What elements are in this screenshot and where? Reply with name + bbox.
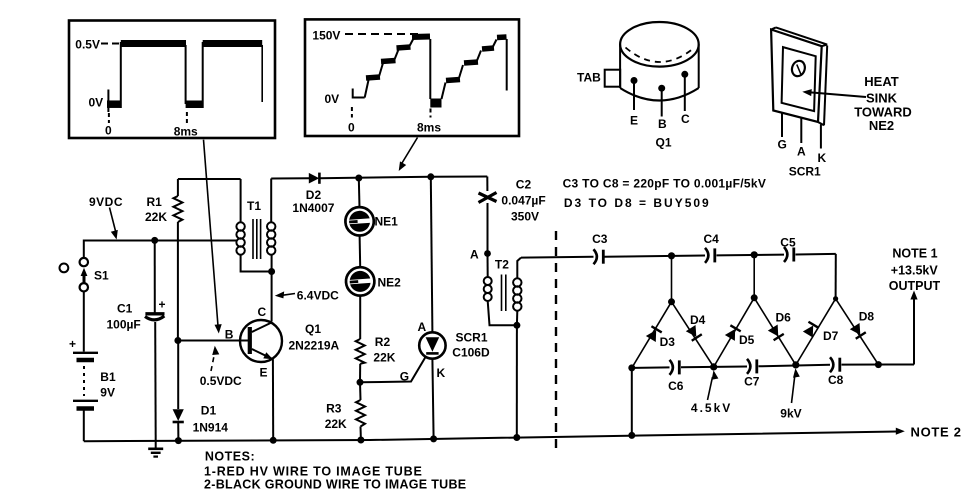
svg-text:Q1: Q1 <box>305 322 321 336</box>
svg-text:NOTE 1: NOTE 1 <box>892 247 937 261</box>
svg-text:E: E <box>630 114 638 128</box>
svg-text:0: 0 <box>105 124 112 138</box>
svg-text:G: G <box>400 370 409 384</box>
svg-text:A: A <box>797 145 806 159</box>
svg-text:R3: R3 <box>326 402 342 416</box>
svg-text:C4: C4 <box>704 232 720 246</box>
svg-text:D1: D1 <box>201 404 217 418</box>
svg-text:C: C <box>681 112 690 126</box>
svg-text:K: K <box>818 151 827 165</box>
svg-text:0.5VDC: 0.5VDC <box>200 374 242 388</box>
svg-text:R1: R1 <box>147 195 163 209</box>
svg-text:22K: 22K <box>373 351 395 365</box>
svg-text:HEAT: HEAT <box>864 74 898 89</box>
svg-text:D5: D5 <box>739 333 755 347</box>
svg-text:6.4VDC: 6.4VDC <box>297 289 339 303</box>
svg-text:0V: 0V <box>325 92 340 106</box>
svg-text:350V: 350V <box>511 210 539 224</box>
svg-text:C2: C2 <box>516 178 532 192</box>
svg-text:R2: R2 <box>375 335 391 349</box>
svg-text:8ms: 8ms <box>174 125 198 139</box>
svg-text:B: B <box>658 117 667 131</box>
svg-text:Q1: Q1 <box>656 136 672 150</box>
svg-text:100µF: 100µF <box>107 318 141 332</box>
svg-text:150V: 150V <box>312 29 340 43</box>
svg-text:C3: C3 <box>592 232 608 246</box>
svg-text:+: + <box>159 298 166 312</box>
svg-text:G: G <box>778 138 787 152</box>
svg-text:C: C <box>258 305 267 319</box>
svg-text:D7: D7 <box>823 329 839 343</box>
svg-text:SCR1: SCR1 <box>456 331 488 345</box>
svg-text:C8: C8 <box>828 373 844 387</box>
svg-text:D6: D6 <box>776 311 792 325</box>
svg-text:C6: C6 <box>668 379 684 393</box>
svg-text:NE1: NE1 <box>375 215 399 229</box>
svg-text:1N4007: 1N4007 <box>292 201 334 215</box>
svg-text:NOTES:: NOTES: <box>205 450 255 464</box>
svg-text:C5: C5 <box>780 235 796 249</box>
svg-text:SCR1: SCR1 <box>789 165 821 179</box>
svg-text:C1: C1 <box>117 302 133 316</box>
svg-text:4.5kV: 4.5kV <box>691 401 732 415</box>
svg-text:NE2: NE2 <box>378 276 402 290</box>
svg-text:C3 TO C8 = 220pF TO 0.001µF/5k: C3 TO C8 = 220pF TO 0.001µF/5kV <box>563 177 767 191</box>
svg-text:S1: S1 <box>94 269 109 283</box>
svg-text:22K: 22K <box>325 417 347 431</box>
svg-text:1N914: 1N914 <box>193 421 229 435</box>
svg-text:K: K <box>437 366 446 380</box>
svg-text:OUTPUT: OUTPUT <box>889 279 941 293</box>
svg-text:9V: 9V <box>100 386 115 400</box>
svg-text:D4: D4 <box>690 313 706 327</box>
svg-text:NOTE 2: NOTE 2 <box>911 425 962 440</box>
svg-text:E: E <box>260 366 268 380</box>
svg-text:D3: D3 <box>660 335 676 349</box>
svg-text:TAB: TAB <box>577 71 601 85</box>
svg-text:SINK: SINK <box>866 91 898 106</box>
svg-text:9VDC: 9VDC <box>89 195 123 209</box>
svg-text:2-BLACK GROUND WIRE TO IMAGE T: 2-BLACK GROUND WIRE TO IMAGE TUBE <box>204 478 466 492</box>
svg-text:D8: D8 <box>859 310 875 324</box>
svg-text:T2: T2 <box>495 258 509 272</box>
svg-text:22K: 22K <box>145 210 167 224</box>
svg-text:0.5V: 0.5V <box>75 38 100 52</box>
svg-text:0: 0 <box>348 121 355 135</box>
svg-text:9kV: 9kV <box>780 407 801 421</box>
svg-text:A: A <box>470 248 479 262</box>
svg-text:A: A <box>418 320 427 334</box>
svg-text:2N2219A: 2N2219A <box>289 339 340 353</box>
svg-text:D2: D2 <box>306 188 322 202</box>
svg-text:C106D: C106D <box>452 346 490 360</box>
svg-text:1-RED HV WIRE TO IMAGE TUBE: 1-RED HV WIRE TO IMAGE TUBE <box>204 465 423 479</box>
svg-text:+: + <box>69 337 76 351</box>
svg-text:0.047µF: 0.047µF <box>501 194 545 208</box>
svg-text:C7: C7 <box>744 375 760 389</box>
svg-text:B: B <box>225 328 234 342</box>
svg-text:D3 TO D8 = BUY509: D3 TO D8 = BUY509 <box>564 196 711 210</box>
svg-text:+13.5kV: +13.5kV <box>891 264 939 278</box>
svg-text:NE2: NE2 <box>869 118 894 133</box>
svg-text:0V: 0V <box>89 96 104 110</box>
svg-text:T1: T1 <box>247 199 261 213</box>
svg-text:8ms: 8ms <box>417 121 441 135</box>
svg-text:B1: B1 <box>100 370 116 384</box>
